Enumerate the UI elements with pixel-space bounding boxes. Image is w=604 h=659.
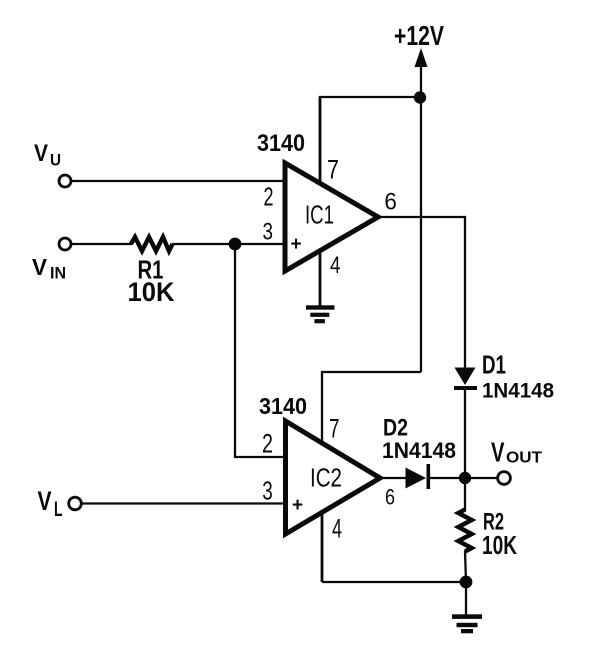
wire +12V rail to IC1 pin 7: [320, 97, 420, 185]
node VOUT junction: [459, 472, 471, 484]
diode D2: [406, 464, 431, 489]
node ground junction: [460, 576, 473, 589]
resistor R1: [131, 237, 173, 251]
svg-text:V: V: [32, 254, 48, 280]
svg-text:3: 3: [262, 475, 273, 505]
wire D2 to VOUT node: [430, 477, 465, 479]
wire node to ground 2: [465, 582, 467, 615]
wire junction down to IC2 pin 2: [235, 244, 285, 457]
svg-text:IN: IN: [50, 264, 66, 283]
svg-text:2: 2: [264, 182, 274, 212]
svg-text:IC2: IC2: [310, 463, 342, 493]
svg-text:L: L: [54, 498, 63, 521]
wire VU to IC1 pin 2: [71, 180, 285, 182]
ground bottom: [452, 614, 482, 633]
terminal VL: [69, 497, 82, 510]
node VIN junction: [229, 238, 242, 251]
wire R1 to IC1 pin 3: [172, 243, 285, 245]
svg-text:7: 7: [327, 155, 339, 185]
svg-text:+12V: +12V: [394, 20, 444, 51]
terminal VOUT: [498, 472, 511, 485]
op-amp IC2: [286, 421, 381, 534]
svg-text:+: +: [291, 234, 302, 255]
svg-text:3140: 3140: [257, 130, 305, 157]
diode D1: [454, 368, 477, 391]
svg-text:7: 7: [329, 414, 340, 444]
svg-text:V: V: [38, 486, 52, 516]
svg-text:10K: 10K: [128, 277, 175, 307]
svg-text:1N4148: 1N4148: [382, 438, 456, 463]
svg-text:4: 4: [332, 514, 342, 544]
wire VIN to R1: [71, 243, 132, 245]
wire IC2 pin 6 to D2: [380, 477, 406, 479]
wire VL to IC2 pin 3: [81, 502, 285, 504]
svg-text:10K: 10K: [482, 530, 517, 560]
ground under IC1: [306, 305, 335, 323]
svg-text:2: 2: [262, 429, 273, 459]
svg-text:6: 6: [385, 485, 395, 510]
wire VOUT node to terminal: [465, 477, 498, 479]
svg-text:+: +: [292, 495, 303, 516]
svg-text:D1: D1: [482, 350, 506, 380]
svg-text:OUT: OUT: [506, 450, 542, 467]
op-amp IC1: [285, 163, 378, 271]
svg-text:V: V: [491, 437, 505, 468]
svg-text:3140: 3140: [259, 393, 307, 419]
wire ground rail to bottom node: [322, 581, 466, 583]
wire IC1 pin 6 output: [378, 217, 465, 368]
resistor R2: [458, 478, 471, 582]
pin 4 line IC1: [319, 250, 322, 306]
pin 7 line IC1: [319, 97, 322, 185]
svg-text:V: V: [34, 140, 48, 167]
svg-text:3: 3: [263, 219, 274, 246]
+12V supply arrow: [415, 48, 428, 372]
terminal VIN: [59, 238, 71, 250]
wire +12V rail to IC2 pin 7: [322, 372, 421, 444]
svg-text:6: 6: [384, 189, 397, 216]
terminal VU: [59, 175, 71, 187]
svg-text:4: 4: [330, 252, 341, 279]
svg-text:U: U: [50, 151, 61, 170]
junction supply node: [414, 91, 426, 103]
wire D1 to VOUT node: [464, 390, 466, 478]
pin 4 line IC2 to ground rail: [321, 512, 324, 582]
svg-text:IC1: IC1: [305, 200, 334, 230]
svg-text:1N4148: 1N4148: [482, 380, 554, 403]
